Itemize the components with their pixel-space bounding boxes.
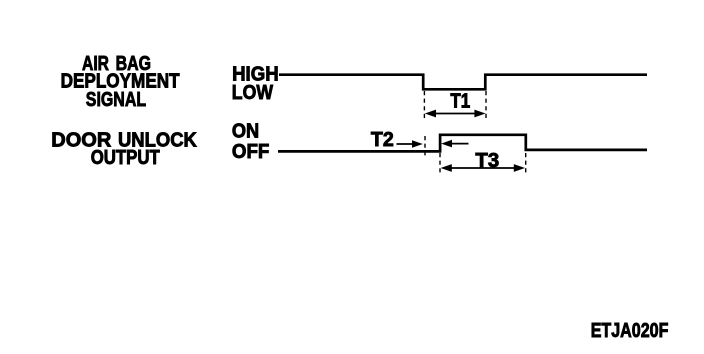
svg-text:OFF: OFF [232, 141, 270, 163]
svg-text:ON: ON [232, 121, 259, 143]
svg-text:T1: T1 [450, 91, 470, 113]
svg-text:OUTPUT: OUTPUT [91, 147, 160, 169]
svg-text:LOW: LOW [232, 82, 273, 104]
svg-text:T2: T2 [371, 129, 394, 151]
svg-text:SIGNAL: SIGNAL [86, 89, 146, 111]
svg-text:ETJA020F: ETJA020F [591, 320, 669, 342]
svg-text:T3: T3 [475, 150, 499, 172]
